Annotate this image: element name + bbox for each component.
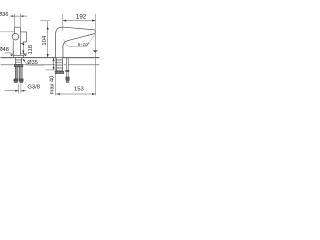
dim 118 arrows	[22, 42, 24, 54]
extension lines Ø36	[15, 14, 21, 27]
svg-text:104: 104	[42, 35, 48, 46]
dim 192 extensions	[63, 14, 96, 31]
dim 153 line	[56, 93, 96, 95]
G3/8 dim line right tail	[21, 90, 26, 92]
tube nut	[66, 70, 69, 72]
side connection tube	[66, 58, 68, 77]
dim Ø48 arrows	[10, 54, 26, 56]
svg-text:153: 153	[74, 86, 85, 92]
base flange	[14, 55, 24, 57]
dim Ø48 tail	[5, 53, 28, 55]
svg-text:Ø36: Ø36	[0, 12, 8, 18]
svg-text:Ø35: Ø35	[27, 60, 38, 66]
dim 192 arrows	[63, 20, 95, 22]
deck top line	[1, 57, 100, 59]
dim 104 line	[47, 21, 49, 57]
tube end fitting	[66, 77, 70, 80]
background	[0, 0, 100, 100]
deck bottom line	[1, 64, 100, 66]
svg-text:6÷10°: 6÷10°	[78, 42, 90, 47]
hose fitting left	[14, 79, 18, 81]
spout outlet circle	[12, 33, 19, 40]
G3/8 dim arrows	[15, 90, 24, 92]
faucet body front: right edge	[19, 27, 21, 55]
dim arrows Ø36	[12, 15, 24, 17]
svg-text:Ø48: Ø48	[0, 47, 9, 53]
faucet body side outline	[56, 27, 96, 58]
dim line Ø36	[10, 15, 28, 17]
svg-text:192: 192	[76, 13, 87, 20]
shank side thread lines	[56, 59, 62, 70]
flange extension lines	[14, 51, 24, 56]
Ø35 leader	[23, 59, 45, 65]
svg-text:max 40: max 40	[49, 76, 55, 95]
dim 153 arrows	[56, 93, 95, 95]
svg-text:G3/8: G3/8	[27, 85, 40, 91]
dim 118 line	[22, 42, 24, 54]
shank side (threaded)	[56, 58, 62, 71]
hose left front (braided)	[15, 67, 18, 79]
dim max40 arrows	[53, 58, 55, 70]
handle bracket (right side)	[20, 32, 26, 44]
flow arrow at outlet	[92, 50, 98, 53]
faucet body front: left edge lower	[12, 40, 14, 55]
G3/8 thread extension lines	[19, 84, 21, 94]
G3/8 dim line left	[5, 90, 19, 92]
mounting nut front	[14, 64, 23, 66]
dim 104 top extension	[40, 20, 50, 22]
dim max40 line	[53, 58, 55, 70]
dim 104 arrows	[47, 26, 49, 57]
dim 153 extensions	[56, 34, 96, 96]
dim max40 bottom extension	[45, 69, 56, 71]
hose right front (braided)	[20, 67, 23, 79]
faucet body front: top cap	[15, 27, 21, 33]
hose fitting right	[19, 79, 23, 81]
flange top line	[20, 53, 25, 55]
mounting nut side	[55, 71, 64, 73]
shank front (threaded)	[16, 58, 22, 65]
tilted spout position contour	[64, 34, 95, 46]
shank thread lines	[16, 59, 22, 62]
svg-text:118: 118	[28, 44, 34, 54]
handle top extension line	[0, 31, 15, 33]
dim 192 line	[63, 20, 95, 22]
